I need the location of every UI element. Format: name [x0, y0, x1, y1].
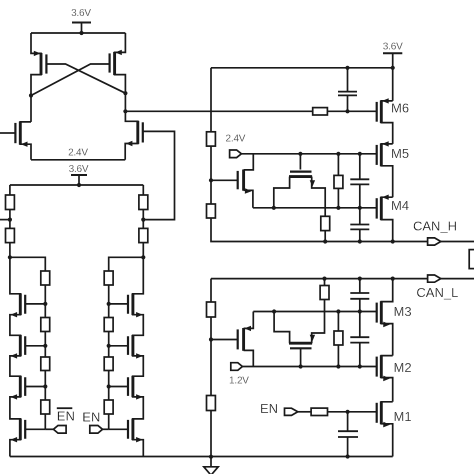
wire tail (2.4V net) — [31, 159, 125, 161]
wire — [44, 285, 46, 318]
node QB4 left lead — [272, 309, 276, 313]
transistor QB3 — [211, 312, 253, 367]
svg-text:CAN_L: CAN_L — [416, 285, 458, 300]
resistor QB4 drain — [320, 286, 329, 300]
node EN cap — [346, 410, 350, 414]
resistor bias spine R3 — [207, 302, 216, 317]
port CAN_L — [416, 275, 474, 300]
supply 3.6V (ladder) — [69, 164, 89, 185]
supply 3.6V (top-left) — [71, 8, 91, 33]
wire spine lower-left — [210, 279, 212, 302]
capacitor M6 gate — [338, 68, 357, 112]
node QB2 source — [272, 206, 276, 210]
port CAN_H — [393, 218, 474, 245]
wire bias top link — [211, 67, 393, 69]
port 2.4V — [230, 150, 242, 158]
resistor chain left R4 — [41, 400, 50, 414]
resistor chain left R2 — [41, 318, 50, 332]
resistor ladder right B1 — [139, 185, 148, 220]
node M6 gate cap — [345, 109, 349, 113]
svg-text:EN: EN — [260, 401, 278, 416]
resistor QB2 drain — [321, 216, 330, 230]
svg-text:M2: M2 — [394, 360, 412, 375]
svg-text:EN: EN — [57, 409, 75, 424]
resistor ladder right B2 — [139, 220, 148, 258]
port 1.2V — [229, 363, 249, 387]
svg-text:CAN_H: CAN_H — [413, 218, 457, 233]
wire spine upper-left — [210, 68, 212, 132]
node — [323, 239, 327, 243]
capacitor EN — [338, 412, 358, 457]
port EN (ladder) — [82, 409, 108, 433]
transistor input pair left — [15, 122, 31, 160]
node QB4 gate — [299, 364, 303, 368]
svg-text:M5: M5 — [391, 146, 409, 161]
termination box (right edge) — [469, 250, 474, 269]
wire input right gate to ladder — [143, 131, 175, 219]
wire — [108, 371, 110, 401]
svg-text:2.4V: 2.4V — [68, 147, 88, 158]
transistor M2 — [377, 355, 412, 402]
wire ladder left gate leads — [25, 304, 45, 429]
wire — [108, 285, 110, 318]
node ladder right branch — [141, 255, 145, 259]
node T2r gate — [107, 344, 111, 348]
svg-text:3.6V: 3.6V — [69, 164, 89, 175]
ground — [204, 457, 218, 474]
resistor chain right R3 — [104, 357, 113, 371]
resistor chain right R4 — [104, 400, 113, 414]
node left stub — [8, 218, 12, 222]
resistor chain left R3 — [41, 357, 50, 371]
transistor M5 — [377, 141, 409, 197]
transistor QB4 (rotated) — [274, 300, 324, 367]
node supply M6 — [391, 66, 395, 70]
node right rail to input gate — [141, 218, 145, 222]
resistor chain right R1 — [104, 271, 113, 285]
transistor M6 — [377, 98, 409, 144]
node M4 source rail — [391, 239, 395, 243]
resistor bias spine R2 — [207, 204, 216, 218]
wire right drain down — [124, 93, 126, 111]
wire M4 gate rail — [253, 207, 377, 209]
supply 3.6V (output stage) — [383, 41, 403, 68]
capacitor bias upper C2 — [350, 208, 369, 242]
wire — [108, 414, 110, 429]
wire left drain down — [30, 96, 32, 122]
svg-text:EN: EN — [82, 409, 100, 424]
resistor M6 gate — [313, 108, 328, 115]
port ENbar — [45, 408, 75, 433]
node — [336, 206, 340, 210]
svg-text:3.6V: 3.6V — [71, 8, 91, 19]
wire branch to left gate chain — [10, 257, 45, 271]
node T3r gate — [107, 384, 111, 388]
svg-text:2.4V: 2.4V — [226, 133, 246, 144]
resistor chain left R1 — [41, 271, 50, 285]
node T2 gate — [43, 344, 47, 348]
wire gate stub left + diagonal to right drain — [46, 64, 125, 93]
svg-text:M6: M6 — [391, 101, 409, 116]
wire top rail — [31, 32, 125, 34]
wire — [44, 332, 46, 358]
wire — [324, 231, 326, 242]
wire — [44, 414, 46, 429]
port EN (driver) — [285, 408, 298, 415]
transistor M3 — [377, 279, 412, 356]
transistor QB2 (rotated) — [274, 154, 325, 217]
transistor ladder right stack T1r-T4r — [128, 257, 143, 456]
resistor chain right R2 — [104, 318, 113, 332]
wire M3 gate rail — [253, 311, 376, 313]
svg-text:1.2V: 1.2V — [229, 376, 249, 387]
resistor ladder left A1 — [6, 185, 15, 220]
node — [358, 152, 362, 156]
capacitor bias lower C3 — [350, 279, 369, 312]
wire spine to rail — [211, 218, 393, 242]
node right drain — [123, 91, 127, 95]
node supply-rail junction — [79, 31, 83, 35]
node QB3 gate — [209, 337, 213, 341]
resistor bias mid (lower) — [334, 312, 343, 367]
node — [322, 277, 326, 281]
node QB1 gate — [209, 178, 213, 182]
node — [358, 364, 362, 368]
transistor cross-coupled left — [31, 33, 46, 96]
wire gate stub right + diagonal to left drain — [31, 64, 110, 96]
node M3 drain CAN_L — [391, 277, 395, 281]
transistor ladder left stack T1-T4 — [10, 257, 25, 456]
wire ladder supply rail — [10, 184, 143, 186]
wire EN to resistor — [298, 411, 311, 413]
wire branch to right gate chain — [109, 257, 144, 271]
wire — [44, 371, 46, 401]
wire CAN_L rail — [211, 278, 428, 280]
node QB2 gate — [298, 152, 302, 156]
wire M6 gate — [125, 110, 376, 112]
node EN cap ground — [346, 454, 350, 458]
svg-text:M3: M3 — [394, 304, 412, 319]
node ladder supply — [77, 183, 81, 187]
capacitor bias upper C1 — [350, 154, 369, 208]
wire EN / M1 gate — [328, 411, 377, 413]
node T3 gate — [43, 384, 47, 388]
node — [336, 309, 340, 313]
transistor cross-coupled right — [110, 33, 126, 93]
svg-text:M4: M4 — [391, 198, 409, 213]
wire 1.2V / M2 gate — [242, 366, 376, 368]
node ground junction — [209, 455, 213, 459]
capacitor bias lower C4 — [350, 312, 369, 367]
resistor ladder left A2 — [6, 220, 15, 258]
wire — [210, 146, 212, 204]
transistor M4 — [377, 195, 409, 242]
transistor input pair right — [125, 111, 143, 160]
resistor EN — [311, 408, 327, 415]
node T1 gate — [43, 302, 47, 306]
node — [336, 152, 340, 156]
node — [358, 239, 362, 243]
transistor QB1 — [211, 154, 253, 208]
wire stub to left edge — [0, 219, 10, 221]
wire — [324, 279, 326, 286]
svg-text:M1: M1 — [394, 409, 412, 424]
node left drain — [29, 93, 33, 97]
resistor bias spine R4 — [207, 396, 216, 411]
resistor bias mid (upper) — [334, 154, 343, 208]
wire — [210, 317, 212, 396]
resistor bias spine R1 — [207, 132, 216, 146]
wire — [108, 332, 110, 358]
wire M6 drain — [392, 68, 394, 101]
wire ladder right gate leads — [109, 304, 128, 429]
node — [336, 364, 340, 368]
wire 2.4V / M5 gate — [241, 153, 376, 155]
node cap tap — [345, 66, 349, 70]
node T1r gate — [107, 302, 111, 306]
node ladder left branch — [8, 255, 12, 259]
node — [358, 309, 362, 313]
svg-text:3.6V: 3.6V — [383, 41, 403, 52]
wire input left gate stub — [0, 132, 15, 134]
node — [358, 277, 362, 281]
wire spine to ground rail — [210, 411, 212, 457]
wire bottom ground rail — [10, 456, 393, 458]
transistor M1 — [377, 401, 412, 456]
node output tap — [123, 109, 127, 113]
node — [358, 206, 362, 210]
